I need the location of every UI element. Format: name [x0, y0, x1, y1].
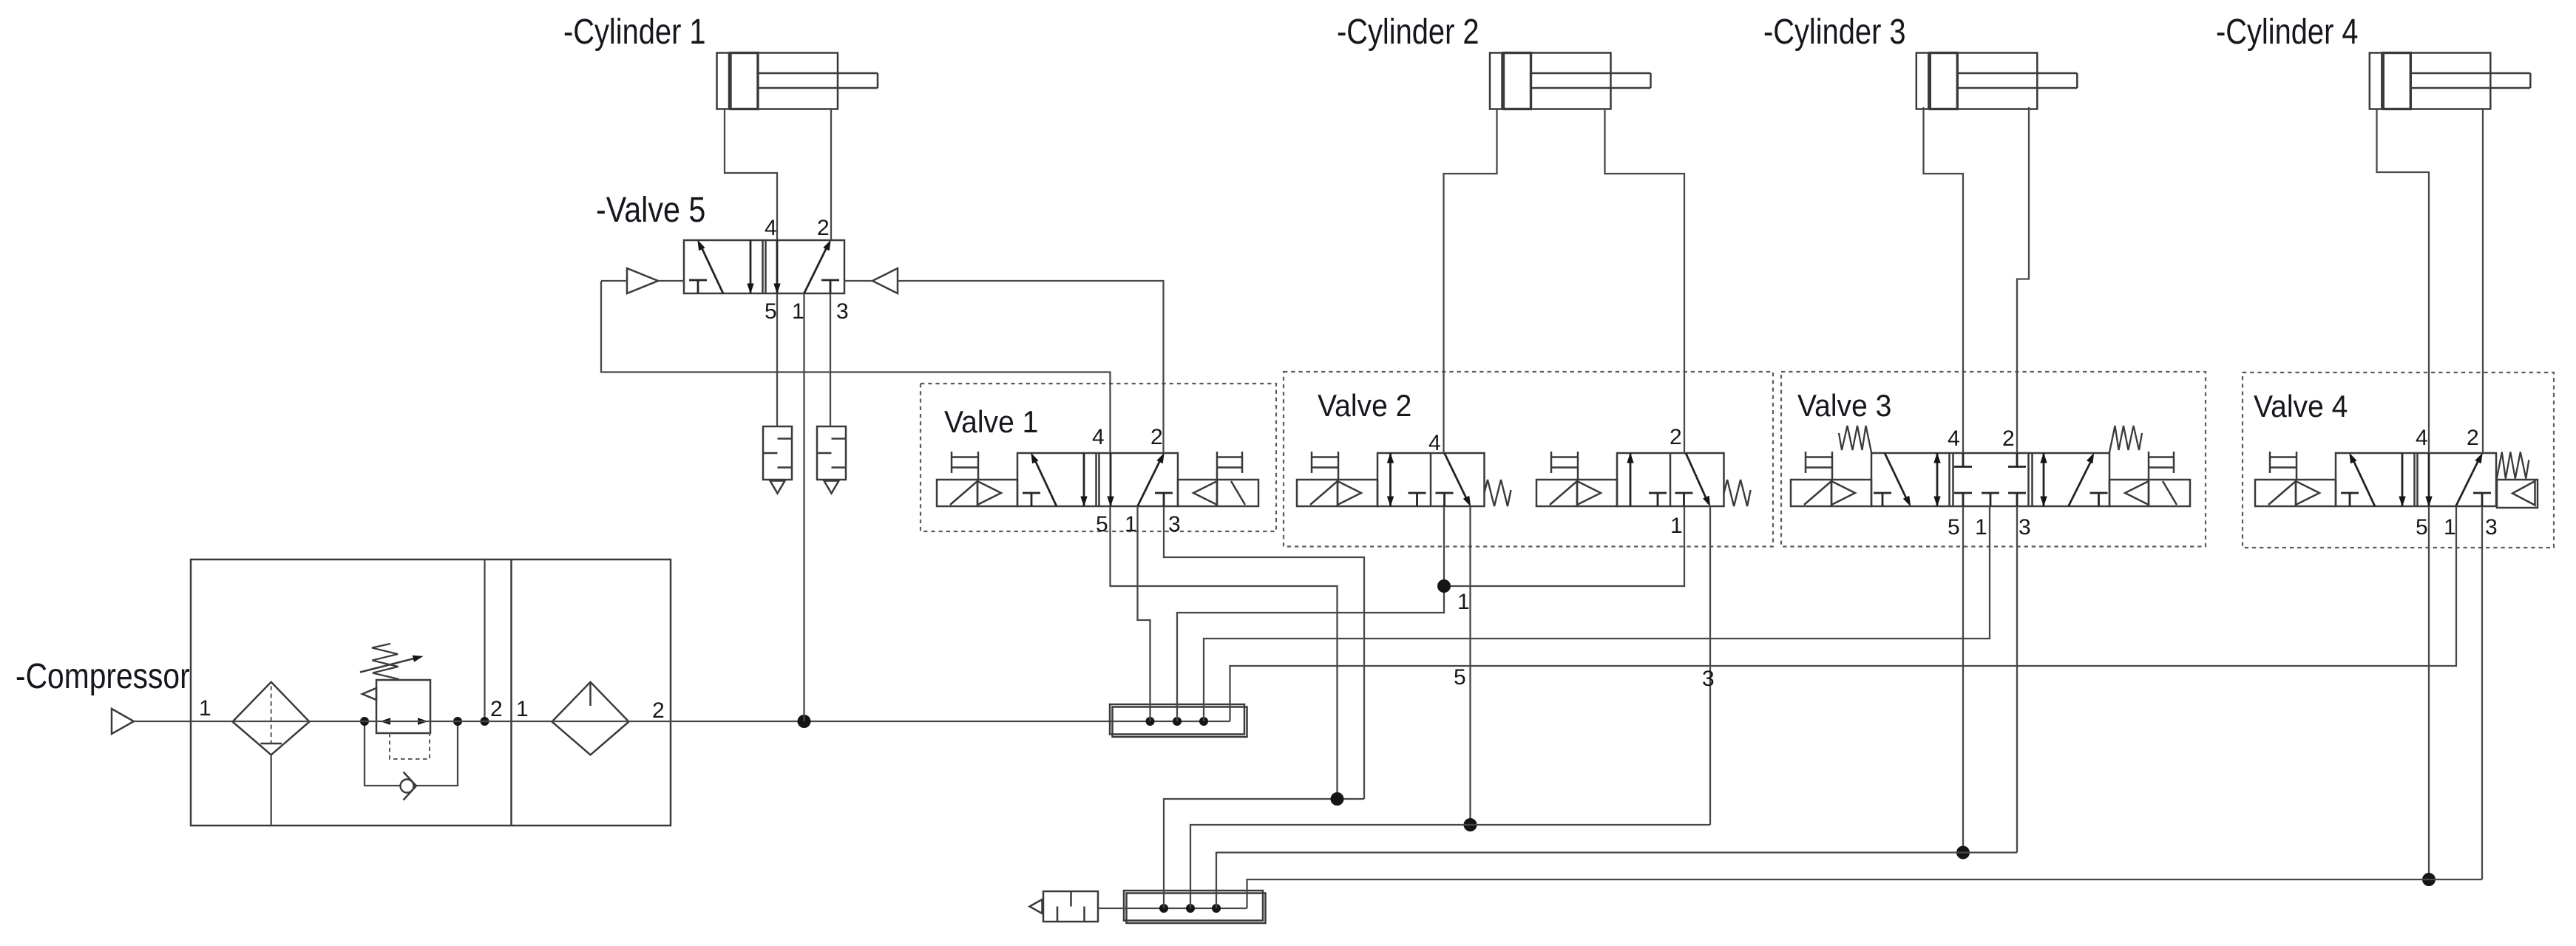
- svg-text:2: 2: [2002, 426, 2015, 451]
- port label 1: [199, 696, 211, 721]
- svg-text:3: 3: [1168, 512, 1181, 537]
- svg-text:2: 2: [652, 698, 665, 723]
- wire V1 port3 exhaust: [1164, 506, 1364, 799]
- air service unit inner tap line: [484, 559, 485, 721]
- valve V2b solenoid with override: [1536, 452, 1617, 506]
- junction dot valve5 feed: [798, 715, 811, 728]
- wire V4 port3 exhaust: [2481, 506, 2483, 879]
- valve V2b body (3/2): [1617, 453, 1724, 506]
- svg-text:3: 3: [836, 299, 849, 324]
- junction dot V2 supply: [1437, 579, 1451, 593]
- svg-text:Valve 4: Valve 4: [2254, 389, 2348, 424]
- port label 2: [2002, 426, 2015, 451]
- cylinder Cylinder 1: [717, 53, 878, 109]
- valve V4 body (5/2): [2336, 453, 2496, 506]
- svg-text:3: 3: [2485, 515, 2498, 540]
- svg-text:2: 2: [1150, 425, 1163, 449]
- wire V5 port5 to silencer: [776, 293, 778, 426]
- svg-text:-Valve 5: -Valve 5: [596, 190, 705, 230]
- exhaust manifold block: [1124, 891, 1266, 923]
- valve V3 right centering spring: [2109, 426, 2142, 452]
- junction dot Y1: [1331, 792, 1344, 806]
- wire cylinder1 left to V5 port4: [725, 109, 777, 241]
- junction dot Y3: [1956, 846, 1970, 860]
- svg-text:5: 5: [1454, 665, 1466, 690]
- silencer valve5 port5: [763, 426, 792, 494]
- valve V4 solenoid with override: [2255, 452, 2336, 506]
- port label 1: [792, 299, 804, 324]
- wire exhaust bus Y1: [1164, 799, 1364, 908]
- svg-text:4: 4: [2416, 426, 2428, 450]
- wire exhaust bus Y3: [1216, 853, 2017, 909]
- port label 5: [1096, 512, 1108, 537]
- valve V3 right solenoid with override: [2109, 452, 2190, 506]
- compressor source triangle: [112, 709, 134, 734]
- manifold dot 6: [1212, 904, 1221, 913]
- port label 5: [1948, 515, 1960, 540]
- valve V3 left solenoid with override: [1791, 452, 1871, 506]
- bypass wire: [365, 721, 458, 786]
- valve V1 right solenoid with override: [1178, 452, 1258, 506]
- junction dot: [360, 717, 369, 726]
- valve V5 right pilot triangle: [872, 268, 898, 293]
- lubricator drop stem: [589, 683, 592, 706]
- air service unit enclosure: [191, 559, 671, 826]
- valve V5 right pilot stub: [844, 280, 872, 282]
- manifold dot 1: [1146, 717, 1155, 726]
- wire cylinder3 right to V3 port2: [2017, 107, 2029, 453]
- junction dot: [453, 717, 462, 726]
- port label 2: [817, 216, 830, 240]
- valve V2a solenoid with override: [1297, 452, 1377, 506]
- port label 1: [1975, 515, 1987, 540]
- wire cylinder3 left to V3 port4: [1924, 107, 1964, 453]
- silencer valve5 port3: [817, 426, 846, 494]
- wire cylinder2 left to V2a port4: [1444, 109, 1497, 454]
- svg-text:3: 3: [1702, 667, 1715, 691]
- port label 4: [1428, 431, 1441, 455]
- svg-text:-Cylinder 4: -Cylinder 4: [2216, 13, 2359, 52]
- dashed box Valve 3: [1781, 372, 2206, 547]
- label -Cylinder 1: [563, 13, 706, 52]
- valve V2a return spring: [1485, 480, 1511, 506]
- svg-text:5: 5: [2416, 515, 2428, 540]
- label -Compressor: [16, 657, 190, 696]
- wire exhaust bus Y4: [1247, 879, 2483, 908]
- port label 1: [1457, 590, 1470, 614]
- regulator box: [376, 680, 430, 733]
- svg-text:2: 2: [1670, 425, 1682, 449]
- valve V1 body (5/2): [1017, 453, 1178, 506]
- port label 2: [1670, 425, 1682, 449]
- label Valve 2: [1318, 388, 1411, 423]
- wire supply branch to V3 port1: [1204, 506, 1990, 721]
- port label 3: [1702, 667, 1715, 691]
- dashed box Valve 4: [2243, 372, 2554, 548]
- svg-text:2: 2: [817, 216, 830, 240]
- svg-text:2: 2: [490, 697, 503, 721]
- svg-text:5: 5: [1096, 512, 1108, 537]
- filter water trap chord: [260, 743, 282, 745]
- wire V1 port5 exhaust: [1111, 506, 1338, 799]
- port label 2: [2467, 426, 2479, 450]
- valve V5 left pilot triangle: [627, 268, 658, 293]
- wire cylinder4 right to V4 port2: [2482, 109, 2484, 454]
- valve V2b return spring: [1724, 480, 1751, 506]
- manifold dot 4: [1159, 904, 1168, 913]
- port label 5: [765, 299, 777, 324]
- valve V4 return spring: [2496, 452, 2529, 481]
- port label 3: [2019, 515, 2031, 540]
- lubricator diamond: [552, 682, 629, 755]
- wire exhaust bus: [1164, 908, 1247, 909]
- valve V3 body (5/3): [1871, 453, 2109, 506]
- cylinder Cylinder 2: [1490, 53, 1651, 109]
- port label 4: [1948, 426, 1960, 451]
- svg-text:4: 4: [1948, 426, 1960, 451]
- wire V2a port5 exhaust: [1469, 506, 1471, 825]
- check valve: [401, 772, 417, 800]
- svg-text:4: 4: [1092, 425, 1105, 449]
- port label 1: [2444, 515, 2456, 540]
- wire V5 port1 supply: [803, 293, 804, 721]
- wire V1 port1 supply: [1138, 506, 1150, 721]
- dashed box Valve 2: [1284, 372, 1773, 547]
- cylinder Cylinder 4: [2370, 53, 2531, 109]
- wire V5 right pilot to V1 port2: [898, 281, 1164, 453]
- port label 2: [1150, 425, 1163, 449]
- wire supply branch to V4 port1: [1230, 506, 2457, 721]
- svg-text:-Compressor: -Compressor: [16, 657, 190, 696]
- svg-text:Valve 3: Valve 3: [1797, 388, 1891, 423]
- port label 4: [1092, 425, 1105, 449]
- valve V1 left solenoid with override: [937, 452, 1017, 506]
- cylinder Cylinder 3: [1916, 53, 2078, 109]
- svg-text:4: 4: [765, 216, 777, 240]
- svg-text:1: 1: [792, 299, 804, 324]
- svg-text:1: 1: [199, 696, 211, 721]
- wire V4 port5 exhaust: [2428, 506, 2430, 879]
- filter diamond: [233, 682, 310, 755]
- wire cylinder2 right to V2b port2: [1605, 109, 1685, 454]
- svg-text:5: 5: [1948, 515, 1960, 540]
- wire V2 port1 link: [1444, 506, 1684, 586]
- wire V5 left pilot to V1 port4: [601, 281, 1111, 453]
- svg-text:1: 1: [1975, 515, 1987, 540]
- wire main supply: [134, 721, 1230, 722]
- label -Cylinder 2: [1337, 13, 1479, 52]
- port label 5: [1454, 665, 1466, 690]
- filter condensate line (dashed): [271, 686, 272, 743]
- wire supply branch to V2a port1: [1177, 506, 1444, 721]
- filter drain line: [271, 755, 272, 826]
- wire cylinder1 right to V5 port2: [830, 109, 832, 241]
- port label 3: [1168, 512, 1181, 537]
- port label 5: [2416, 515, 2428, 540]
- svg-text:Valve 2: Valve 2: [1318, 388, 1411, 423]
- svg-text:-Cylinder 1: -Cylinder 1: [563, 13, 706, 52]
- valve V5 body (5/2): [684, 240, 844, 293]
- valve V5 left pilot stub: [601, 280, 684, 282]
- exhaust silencer: [1030, 891, 1099, 922]
- port label 4: [765, 216, 777, 240]
- wire cylinder4 left to V4 port4: [2377, 109, 2430, 454]
- svg-text:5: 5: [765, 299, 777, 324]
- regulator adjustment arrow: [360, 656, 422, 672]
- port label 1: [1125, 512, 1137, 537]
- label -Valve 5: [596, 190, 705, 230]
- port label 2: [490, 697, 503, 721]
- port label 3: [2485, 515, 2498, 540]
- manifold dot 3: [1199, 717, 1208, 726]
- label Valve 4: [2254, 389, 2348, 424]
- wire silencer to manifold: [1098, 908, 1164, 909]
- svg-text:2: 2: [2467, 426, 2479, 450]
- svg-text:1: 1: [516, 697, 529, 721]
- svg-text:1: 1: [1457, 590, 1470, 614]
- regulator pilot dashed loop: [390, 733, 430, 759]
- junction dot Y4: [2422, 873, 2436, 886]
- junction dot: [481, 717, 489, 726]
- manifold supply block: [1110, 704, 1247, 737]
- label Valve 1: [944, 404, 1038, 440]
- wire exhaust bus Y2: [1190, 825, 1710, 908]
- manifold dot 5: [1186, 904, 1195, 913]
- svg-text:-Cylinder 3: -Cylinder 3: [1763, 13, 1906, 52]
- port label 4: [2416, 426, 2428, 450]
- svg-text:4: 4: [1428, 431, 1441, 455]
- svg-text:-Cylinder 2: -Cylinder 2: [1337, 13, 1479, 52]
- air service unit divider: [510, 559, 512, 826]
- svg-text:3: 3: [2019, 515, 2031, 540]
- dashed box Valve 1: [921, 384, 1276, 531]
- wire V3 port5 exhaust: [1962, 506, 1964, 853]
- port label 2: [652, 698, 665, 723]
- valve V3 left centering spring: [1839, 426, 1871, 452]
- svg-text:1: 1: [2444, 515, 2456, 540]
- label -Cylinder 3: [1763, 13, 1906, 52]
- manifold dot 2: [1173, 717, 1182, 726]
- port label 1: [1670, 514, 1683, 538]
- regulator adjustment spring: [372, 644, 399, 679]
- label -Cylinder 4: [2216, 13, 2359, 52]
- valve V2a body (3/2): [1377, 453, 1485, 506]
- junction dot Y2: [1464, 818, 1477, 831]
- wire V5 port3 to silencer: [830, 293, 831, 426]
- svg-text:Valve 1: Valve 1: [944, 404, 1038, 440]
- port label 1: [516, 697, 529, 721]
- regulator relief triangle: [362, 688, 376, 700]
- port label 3: [836, 299, 849, 324]
- svg-text:1: 1: [1670, 514, 1683, 538]
- svg-text:1: 1: [1125, 512, 1137, 537]
- regulator flow arrows: [382, 718, 427, 724]
- label Valve 3: [1797, 388, 1891, 423]
- wire V3 port3 exhaust: [2016, 506, 2018, 853]
- wire V2b port3 exhaust: [1709, 506, 1711, 825]
- valve V4 pilot box: [2497, 480, 2538, 508]
